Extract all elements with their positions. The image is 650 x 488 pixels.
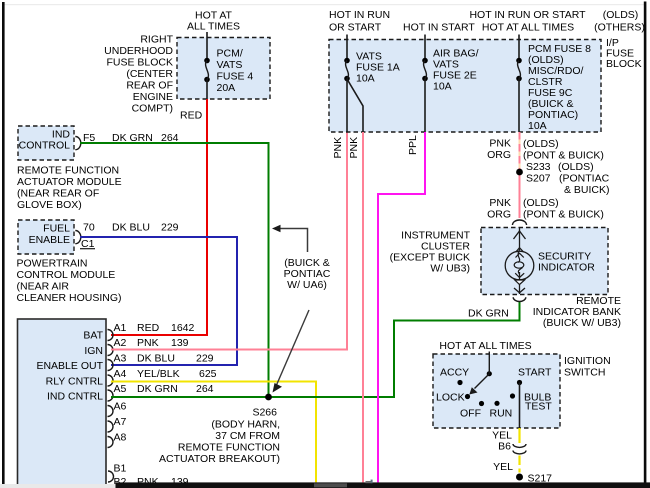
- pin A3 arc: [108, 360, 114, 371]
- svg-text:SWITCH: SWITCH: [564, 367, 605, 379]
- svg-text:(OLDS): (OLDS): [558, 161, 594, 173]
- svg-text:HOT IN RUN: HOT IN RUN: [329, 9, 390, 21]
- svg-text:TEST: TEST: [525, 401, 552, 413]
- svg-text:RED: RED: [137, 322, 160, 334]
- svg-text:A8: A8: [114, 432, 127, 444]
- top frame line: [4, 4, 644, 5]
- svg-text:PPL: PPL: [407, 135, 419, 155]
- svg-text:10A: 10A: [356, 73, 375, 85]
- svg-text:LOCK: LOCK: [436, 392, 465, 404]
- splice S217 dot: [516, 474, 523, 481]
- svg-text:A5: A5: [114, 383, 127, 395]
- svg-text:(NEAR AIR: (NEAR AIR: [17, 281, 70, 293]
- svg-text:START: START: [518, 367, 552, 379]
- wire RED 1642 (fuse 4 to PCM pin A1): [111, 99, 207, 335]
- wire YEL below ignition box: [518, 428, 520, 443]
- svg-text:ENABLE: ENABLE: [29, 234, 70, 246]
- wire YEL to S217: [518, 456, 520, 466]
- svg-text:(BODY HARN,: (BODY HARN,: [211, 419, 280, 431]
- svg-text:GLOVE BOX): GLOVE BOX): [17, 199, 82, 211]
- pin A1 arc: [108, 330, 114, 341]
- pin B1 arc: [108, 471, 114, 482]
- wire PNK (fuse 1A branch to bottom): [362, 132, 364, 482]
- svg-text:ACTUATOR MODULE: ACTUATOR MODULE: [17, 176, 122, 188]
- switch contact dots: [457, 380, 462, 385]
- wire from START contact down: [519, 383, 521, 429]
- svg-text:PNK: PNK: [489, 197, 511, 209]
- svg-text:229: 229: [161, 222, 179, 234]
- inline connector B6 arcs: [513, 444, 526, 447]
- scrollbar thumb: [314, 483, 347, 487]
- pin A8 arc: [108, 437, 114, 448]
- wire YEL/BLK 625 (pin A4 down offpage): [111, 382, 316, 483]
- underhood fuse block box: [177, 38, 270, 100]
- wire PNK 139 (pin A2 to VATS fuse 1A): [111, 132, 347, 350]
- svg-text:CONTROL: CONTROL: [19, 140, 70, 152]
- svg-text:PNK: PNK: [348, 137, 360, 159]
- pin A2 arc: [108, 345, 114, 356]
- svg-text:IGN: IGN: [84, 345, 103, 357]
- svg-text:REMOTE FUNCTION: REMOTE FUNCTION: [178, 442, 280, 454]
- svg-text:PNK: PNK: [137, 337, 159, 349]
- svg-text:(PONTIAC: (PONTIAC: [559, 173, 610, 185]
- svg-text:A2: A2: [114, 337, 127, 349]
- svg-text:ORG: ORG: [487, 209, 511, 221]
- ignition switch box: [433, 354, 560, 428]
- svg-text:A7: A7: [114, 416, 127, 428]
- svg-text:10A: 10A: [528, 120, 547, 132]
- svg-text:RED: RED: [180, 110, 203, 122]
- wire PPL (fuse 2E down and left): [378, 132, 425, 482]
- svg-text:FUSE 4: FUSE 4: [217, 71, 254, 83]
- svg-text:UNDERHOOD: UNDERHOOD: [104, 45, 173, 57]
- annotation arrow to IND CONTROL wire: [280, 229, 308, 253]
- wire stub from HOT AT ALL TIMES to pivot: [488, 352, 490, 374]
- svg-text:& BUICK): & BUICK): [564, 184, 610, 196]
- svg-text:OFF: OFF: [460, 408, 481, 420]
- pin A7 arc: [108, 421, 114, 432]
- pin 70 connector arc: [75, 231, 81, 244]
- svg-text:YEL/BLK: YEL/BLK: [137, 368, 180, 380]
- svg-text:BAT: BAT: [83, 330, 103, 342]
- svg-text:BLOCK: BLOCK: [606, 58, 642, 70]
- svg-text:A6: A6: [114, 401, 127, 413]
- pin F5 connector arc: [75, 137, 81, 150]
- svg-text:HOT IN RUN OR START: HOT IN RUN OR START: [469, 9, 586, 21]
- wire DK GRN 264 (pin A5 through S266 to cluster): [111, 302, 520, 397]
- pin A4 arc: [108, 375, 114, 386]
- wire stub into fuse 4: [206, 32, 208, 60]
- svg-text:DK GRN: DK GRN: [468, 308, 509, 320]
- svg-text:625: 625: [199, 368, 217, 380]
- fuse AIR BAG/VATS FUSE 2E 10A: [422, 58, 428, 64]
- annotation arrow to S266: [277, 310, 310, 385]
- svg-text:(PONT & BUICK): (PONT & BUICK): [523, 209, 604, 221]
- switch arm with arrowhead at LOCK: [475, 374, 490, 389]
- svg-text:ENABLE OUT: ENABLE OUT: [36, 360, 103, 372]
- bottom black bar: [116, 482, 650, 488]
- cluster top connector arc: [513, 220, 527, 225]
- svg-text:POWERTRAIN: POWERTRAIN: [17, 258, 88, 270]
- remote function actuator module box: [18, 319, 107, 485]
- splice S266 dot: [265, 394, 272, 401]
- svg-text:INDICATOR: INDICATOR: [538, 262, 595, 274]
- pin A5 arc: [108, 390, 114, 401]
- svg-text:S266: S266: [252, 407, 277, 419]
- fuse PCM FUSE 8 / FUSE 9C 10A: [516, 58, 522, 64]
- left window border: [2, 2, 5, 485]
- svg-text:FUEL: FUEL: [43, 223, 70, 235]
- svg-text:W/ UA6): W/ UA6): [287, 279, 327, 291]
- svg-text:(OLDS): (OLDS): [603, 9, 639, 21]
- pin A6 arc: [108, 406, 114, 417]
- fuse PCM/VATS FUSE 4 20A: [204, 58, 210, 64]
- svg-text:DK GRN: DK GRN: [137, 383, 178, 395]
- svg-text:ENGINE: ENGINE: [133, 91, 173, 103]
- svg-text:ALL TIMES: ALL TIMES: [187, 21, 240, 33]
- svg-text:PCM/: PCM/: [217, 48, 243, 60]
- svg-text:RIGHT: RIGHT: [140, 34, 173, 46]
- svg-text:(OTHERS): (OTHERS): [594, 22, 645, 34]
- svg-text:RUN: RUN: [490, 408, 513, 420]
- svg-text:HOT AT ALL TIMES: HOT AT ALL TIMES: [482, 22, 574, 34]
- svg-text:B6: B6: [498, 441, 511, 453]
- svg-text:IND CNTRL: IND CNTRL: [47, 391, 103, 403]
- svg-text:ORG: ORG: [487, 149, 511, 161]
- svg-text:10A: 10A: [433, 81, 452, 93]
- svg-text:1642: 1642: [171, 322, 195, 334]
- svg-text:37 CM FROM: 37 CM FROM: [215, 430, 280, 442]
- svg-text:COMPT): COMPT): [132, 103, 173, 115]
- splice S233/S207 dot: [516, 169, 523, 176]
- svg-text:20A: 20A: [217, 82, 236, 94]
- I/P fuse block box: [329, 40, 601, 133]
- svg-text:S233: S233: [526, 161, 551, 173]
- IND CONTROL box: [18, 126, 74, 160]
- svg-text:(CENTER: (CENTER: [126, 68, 173, 80]
- instrument cluster box: [481, 228, 608, 295]
- svg-text:(OLDS): (OLDS): [523, 197, 559, 209]
- svg-text:REAR OF: REAR OF: [126, 80, 173, 92]
- bottom gray strip: [0, 484, 116, 488]
- svg-text:(PONT & BUICK): (PONT & BUICK): [523, 150, 604, 162]
- svg-text:HOT AT ALL TIMES: HOT AT ALL TIMES: [439, 340, 531, 352]
- svg-text:ACTUATOR BREAKOUT): ACTUATOR BREAKOUT): [159, 453, 280, 465]
- pin B2 arc: [108, 486, 114, 488]
- svg-text:229: 229: [196, 353, 214, 365]
- wire PNK/ORG (fuse 8 to splice, dashed two-color): [519, 132, 521, 169]
- svg-text:RLY CNTRL: RLY CNTRL: [46, 376, 104, 388]
- svg-text:REMOTE FUNCTION: REMOTE FUNCTION: [17, 165, 119, 177]
- wire PNK/ORG (splice to cluster): [519, 175, 521, 218]
- svg-text:B1: B1: [114, 463, 127, 475]
- svg-text:A4: A4: [114, 368, 127, 380]
- svg-text:DK BLU: DK BLU: [112, 222, 150, 234]
- cluster bottom connector arc: [513, 297, 526, 301]
- svg-text:S207: S207: [526, 173, 551, 185]
- svg-text:(BUICK W/ UB3): (BUICK W/ UB3): [543, 317, 621, 329]
- svg-text:YEL: YEL: [493, 461, 513, 473]
- svg-text:HOT IN START: HOT IN START: [403, 22, 475, 34]
- fuse VATS FUSE 1A 10A: [344, 58, 350, 64]
- wire DK BLU 229 (FUEL ENABLE to PCM pin A3): [80, 237, 237, 365]
- svg-text:A3: A3: [114, 353, 127, 365]
- svg-text:OR START: OR START: [329, 22, 382, 34]
- svg-text:DK BLU: DK BLU: [137, 353, 175, 365]
- right window border: [644, 2, 647, 484]
- security indicator lamp symbol: [519, 228, 521, 250]
- svg-text:VATS: VATS: [217, 59, 243, 71]
- svg-text:PNK: PNK: [332, 137, 344, 159]
- svg-text:70: 70: [83, 222, 95, 234]
- svg-text:A1: A1: [114, 322, 127, 334]
- svg-text:264: 264: [196, 383, 214, 395]
- svg-text:PNK: PNK: [489, 138, 511, 150]
- svg-text:139: 139: [171, 337, 189, 349]
- svg-text:ACCY: ACCY: [440, 367, 469, 379]
- wire stub fuse 2E: [424, 35, 426, 61]
- wire stub fuse 1A: [346, 35, 348, 61]
- svg-text:IGNITION: IGNITION: [564, 355, 611, 367]
- svg-text:(OLDS): (OLDS): [523, 138, 559, 150]
- svg-text:CLEANER HOUSING): CLEANER HOUSING): [17, 292, 122, 304]
- wire DK GRN 264 (IND CONTROL to S266): [80, 143, 269, 397]
- svg-text:CONTROL MODULE: CONTROL MODULE: [17, 269, 116, 281]
- wire corner glyph near bottom bar: [366, 481, 373, 483]
- svg-text:FUSE BLOCK: FUSE BLOCK: [106, 57, 173, 69]
- svg-text:(NEAR REAR OF: (NEAR REAR OF: [17, 188, 99, 200]
- svg-text:W/ UB3): W/ UB3): [430, 263, 470, 275]
- wire stub fuse 8/9C: [518, 35, 520, 61]
- FUEL ENABLE box: [18, 220, 74, 254]
